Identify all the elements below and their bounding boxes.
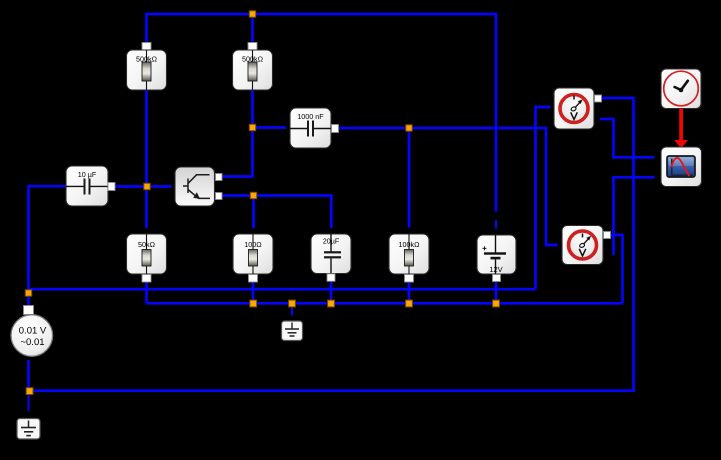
svg-text:500kΩ: 500kΩ: [136, 55, 158, 64]
capacitor C2 1000nF: [290, 108, 339, 148]
wire C2 right output (long horizontal) to V2 left pin: [339, 128, 558, 245]
wire bus1 riser to voltmeter V1 left: [536, 107, 551, 289]
node junction output/R5: [406, 125, 412, 131]
wire V2 signal to scope input 2: [614, 177, 655, 255]
wire ground2 stub: [291, 306, 293, 316]
node junction emitter: [250, 192, 256, 198]
node junction bus2 C3: [328, 300, 335, 307]
svg-text:1000 nF: 1000 nF: [297, 112, 324, 121]
voltmeter V1: [554, 88, 602, 129]
transistor Q1 NPN: [175, 167, 222, 206]
wire bus2 horizontal: [147, 302, 623, 305]
resistor R1 500kΩ: [127, 43, 167, 91]
node junction bus2 R4: [250, 300, 257, 307]
svg-text:100Ω: 100Ω: [244, 240, 262, 249]
scope block: [661, 147, 702, 187]
svg-text:20µF: 20µF: [323, 237, 340, 246]
wire source bottom to lower node: [27, 360, 30, 391]
wire R1 bottom to R3 top (base node vertical): [145, 90, 148, 228]
svg-text:500kΩ: 500kΩ: [242, 55, 264, 64]
resistor R3 50kΩ: [127, 234, 167, 282]
wire emitter node horizontal: [222, 196, 331, 229]
AC voltage source G1: [11, 306, 53, 357]
svg-text:50kΩ: 50kΩ: [138, 240, 156, 249]
svg-text:12V: 12V: [489, 265, 502, 274]
battery B1 12V: [477, 235, 516, 282]
svg-text:0.01 V: 0.01 V: [19, 326, 47, 337]
node junction base: [144, 183, 150, 189]
wire C1 right pin to transistor base: [114, 185, 172, 188]
svg-text:100kΩ: 100kΩ: [399, 240, 421, 249]
wire supply top rail: [147, 14, 497, 212]
resistor R5 100kΩ: [389, 234, 429, 282]
red activation arrow clock to scope: [674, 109, 688, 149]
wire C1 left lead to bus1: [29, 186, 67, 306]
wire C3 bottom stub: [330, 281, 333, 304]
node junction top rail: [249, 11, 255, 17]
wire R2 top stub: [251, 14, 254, 44]
resistor R2 500kΩ: [233, 43, 273, 91]
node junction bus2 battery: [493, 300, 500, 307]
capacitor C3 20µF: [311, 234, 351, 281]
wire bus1 horizontal: [29, 288, 536, 291]
node junction source top / bus1: [25, 290, 31, 296]
wire collector node: [222, 90, 253, 177]
capacitor C1 10µF: [66, 166, 115, 206]
clock block: [661, 69, 701, 109]
ground GND2: [282, 321, 303, 341]
svg-text:+: +: [482, 244, 487, 253]
resistor R4 100Ω: [233, 234, 273, 282]
ground GND1: [17, 419, 40, 440]
wire output junction down to R5 top: [408, 128, 411, 228]
wire junction to C2 left pin: [253, 126, 287, 129]
node junction source bottom: [26, 388, 33, 395]
wire R5 bottom stub: [408, 281, 411, 303]
wire battery top arrow segment: [495, 220, 497, 229]
node junction collector/C2: [249, 124, 255, 130]
wire R4 bottom stub: [252, 281, 255, 303]
node junction bus2 R5: [406, 300, 413, 307]
wire emitter junction down to R4 top: [252, 196, 255, 229]
wire lower return rail to V1 right pin: [30, 98, 634, 391]
wire bus2 riser to V2 right pin: [611, 235, 623, 303]
wire battery bottom stub: [495, 281, 498, 303]
voltmeter V2: [562, 226, 611, 265]
node junction bus2 ground: [289, 300, 296, 307]
wire V1 signal to scope input 1: [600, 119, 655, 157]
wire ground1 stub: [28, 392, 30, 411]
wire R3 bottom to bus2 start: [145, 281, 148, 303]
svg-text:10 µF: 10 µF: [78, 170, 97, 179]
wire source top stub: [28, 296, 30, 307]
svg-text:~0.01: ~0.01: [20, 337, 44, 348]
